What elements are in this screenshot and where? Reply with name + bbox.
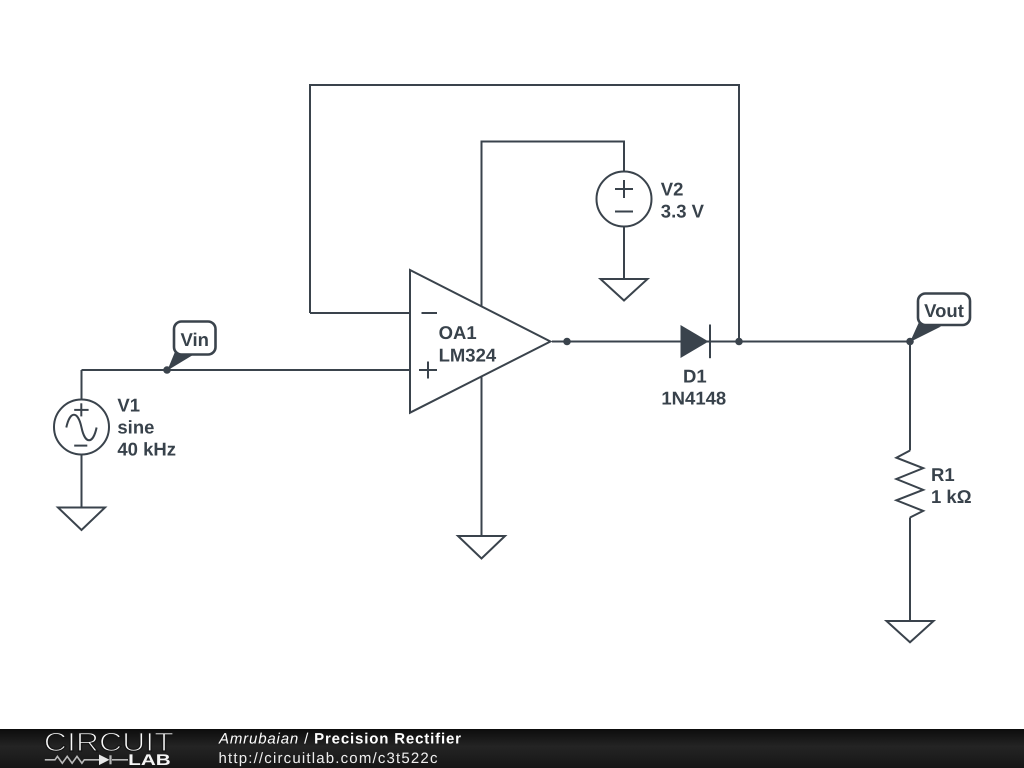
svg-text:LM324: LM324	[439, 345, 497, 366]
svg-text:LAB: LAB	[128, 752, 171, 768]
svg-text:D1: D1	[683, 366, 707, 387]
svg-text:1 kΩ: 1 kΩ	[931, 486, 972, 507]
svg-text:Amrubaian / Precision Rectifie: Amrubaian / Precision Rectifier	[218, 731, 462, 748]
svg-text:3.3 V: 3.3 V	[661, 201, 705, 222]
svg-text:sine: sine	[117, 417, 154, 438]
svg-text:Vin: Vin	[180, 329, 208, 350]
svg-text:Vout: Vout	[924, 300, 964, 321]
svg-text:1N4148: 1N4148	[661, 388, 726, 409]
svg-text:R1: R1	[931, 464, 955, 485]
svg-text:OA1: OA1	[439, 322, 477, 343]
svg-text:http://circuitlab.com/c3t522c: http://circuitlab.com/c3t522c	[219, 750, 439, 767]
svg-text:V2: V2	[661, 179, 684, 200]
svg-text:40 kHz: 40 kHz	[117, 439, 176, 460]
svg-text:V1: V1	[117, 395, 140, 416]
